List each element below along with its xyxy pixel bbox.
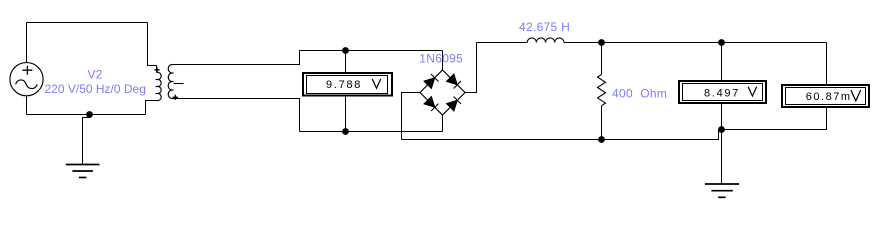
wire top rail of source loop <box>27 22 148 24</box>
transformer secondary winding <box>168 64 173 98</box>
wire bottom rail of source loop <box>27 114 146 116</box>
transformer secondary center tap stub <box>174 83 184 85</box>
node junction dot above voltmeter U2 <box>718 39 725 46</box>
transformer primary polarity plus <box>154 67 159 72</box>
node junction dot below voltmeter U2 <box>718 126 725 133</box>
wire secondary top to meter loop <box>174 51 300 65</box>
wire top rail to bridge <box>300 50 443 52</box>
wire voltmeter U2 top lead <box>721 43 723 82</box>
diode bridge bottom-right diode <box>447 100 458 111</box>
diode bridge top-right diode <box>447 74 458 85</box>
voltmeter U2 unit V <box>748 87 756 96</box>
wire voltmeter U3 top lead <box>826 43 828 86</box>
svg-text:V2: V2 <box>88 68 103 82</box>
voltmeter U2 box <box>679 81 766 103</box>
wire resistor R1 top lead <box>601 43 603 75</box>
resistor R1 <box>598 75 606 106</box>
svg-text:220 V/50 Hz/0 Deg: 220 V/50 Hz/0 Deg <box>45 82 146 96</box>
svg-text:9.788: 9.788 <box>326 79 362 91</box>
wire voltmeter U2 bottom lead <box>721 103 723 130</box>
diode bridge top-left diode <box>424 78 435 89</box>
wire bridge plus output riser <box>465 43 477 93</box>
node junction dot above voltmeter U1 <box>342 47 349 54</box>
ground (left) <box>66 165 100 178</box>
wire bridge minus output to return rail <box>402 93 421 140</box>
node junction dot below voltmeter U1 <box>342 128 349 135</box>
transformer secondary polarity plus <box>173 95 178 100</box>
svg-text:60.87m: 60.87m <box>806 91 852 103</box>
wire secondary bottom to meter loop <box>174 99 300 132</box>
wire voltmeter U3 bottom lead <box>722 107 827 130</box>
diode bridge D1 diamond <box>420 70 465 115</box>
svg-text:1N6095: 1N6095 <box>419 51 463 65</box>
svg-text:8.497: 8.497 <box>704 87 740 99</box>
wire bottom rail to bridge <box>300 131 443 133</box>
wire ground jog <box>83 115 90 165</box>
transformer primary winding <box>157 72 162 100</box>
inductor L1 <box>527 38 564 43</box>
wire top dc rail right of inductor <box>564 42 827 44</box>
AC source plus sign <box>22 66 32 75</box>
wire bridge top lead <box>442 51 444 71</box>
voltmeter U1 unit V <box>372 79 380 88</box>
wire voltmeter U1 top lead <box>345 51 347 73</box>
svg-text:Ohm: Ohm <box>640 87 667 101</box>
wire primary top lead <box>148 23 157 73</box>
svg-text:400: 400 <box>612 87 633 101</box>
voltmeter U3 box <box>782 85 869 107</box>
wire primary bottom lead <box>146 101 157 115</box>
node junction dot above resistor R1 <box>598 39 605 46</box>
voltmeter U3 unit V <box>851 90 861 101</box>
svg-text:42.675 H: 42.675 H <box>519 20 570 34</box>
node junction dot on bottom rail <box>86 111 93 118</box>
ground (right) <box>705 184 739 197</box>
AC source sine wave <box>16 80 38 89</box>
wire voltmeter U1 bottom lead <box>345 97 347 132</box>
wire right ground stem <box>721 130 723 185</box>
node junction dot below resistor R1 <box>598 136 605 143</box>
voltmeter U1 box <box>303 73 392 96</box>
wire return rail <box>402 130 722 140</box>
wire source top lead <box>26 23 28 63</box>
wire resistor R1 bottom lead <box>601 106 603 140</box>
wire top dc rail left of inductor <box>477 42 528 44</box>
wire source bottom lead <box>26 96 28 115</box>
wire bridge bottom lead <box>442 115 444 132</box>
AC source V2 circle <box>10 63 43 96</box>
diode bridge bottom-left diode <box>424 97 435 108</box>
